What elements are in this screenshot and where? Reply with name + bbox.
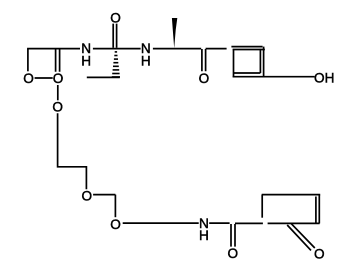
wire ring bottom edge: [268, 222, 320, 224]
wire N2 to C4 backbone: [153, 48, 201, 50]
svg-text:H: H: [199, 228, 209, 243]
phenyl ring inner right vertical (double bond): [259, 49, 261, 73]
wire carbonyl C to ring attach: [235, 222, 263, 224]
wire ethyl CH2-CH3: [87, 76, 120, 78]
svg-text:O: O: [53, 71, 64, 86]
wire N3 to carbonyl C: [209, 222, 229, 224]
svg-text:O: O: [23, 71, 34, 86]
svg-text:O: O: [110, 217, 121, 232]
svg-text:H: H: [141, 54, 151, 69]
double bond ring right (inner line): [315, 197, 317, 223]
wire ring left vertical: [261, 195, 263, 218]
phenyl ring inner bottom line (aromatic double): [234, 72, 261, 74]
wire left vertical C-O bond: [27, 49, 29, 72]
svg-text:OH: OH: [314, 71, 334, 86]
wire C4 to phenyl ring: [206, 48, 227, 50]
wire O4 to CH2: [93, 194, 115, 196]
hashed wedge bond (down from C2 alpha carbon): [112, 52, 120, 77]
wire O-O bond: [35, 77, 53, 79]
wire O3 down chain: [58, 113, 87, 189]
phenyl ring upper top line (aromatic double): [231, 46, 262, 48]
wire top-left C-C bond: [27, 48, 80, 50]
svg-text:O: O: [228, 246, 239, 261]
wire N1 to C2 backbone: [93, 48, 141, 50]
svg-text:O: O: [199, 71, 210, 86]
svg-text:H: H: [81, 54, 91, 69]
double bond C4=O (down): [202, 49, 206, 71]
wire CH2 down to O5: [114, 195, 116, 218]
double bond exocyclic C=O diagonal: [287, 223, 315, 250]
svg-text:O: O: [110, 10, 121, 25]
wire O5 to N3: [123, 222, 199, 224]
wire ring right vertical (outer): [318, 195, 320, 224]
phenyl ring outer right vertical: [263, 47, 265, 77]
solid wedge bond (methyl up from C3 alpha carbon): [172, 18, 177, 48]
svg-text:O: O: [314, 246, 325, 261]
double bond C2=O (up): [113, 24, 116, 48]
double bond C=O (bottom amide): [231, 224, 235, 247]
wire ring top edge: [262, 194, 321, 196]
double bond C=O (first carbonyl, down): [56, 49, 60, 72]
svg-text:O: O: [52, 99, 63, 114]
svg-text:O: O: [82, 188, 93, 203]
phenyl ring left vertical: [233, 50, 235, 77]
wire O2-O3 bond: [57, 85, 59, 100]
phenyl ring bottom edge + bond to OH: [233, 76, 315, 78]
phenyl ring top edge: [233, 49, 265, 51]
